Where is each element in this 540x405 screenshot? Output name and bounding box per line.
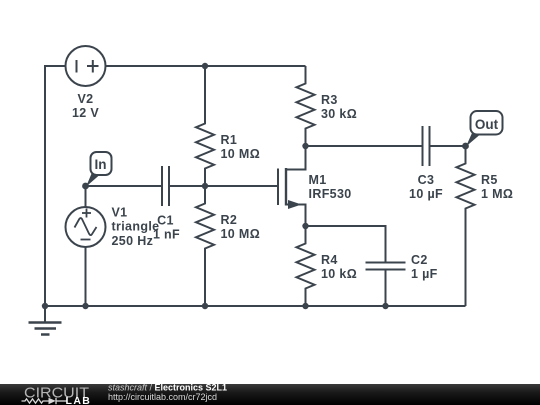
svg-text:1 nF: 1 nF: [153, 227, 180, 241]
label C2 value: [411, 253, 438, 281]
wire source node to C2: [306, 226, 386, 262]
footer bar: [0, 384, 540, 405]
svg-text:10 MΩ: 10 MΩ: [221, 147, 261, 161]
node gate junction: [202, 183, 208, 189]
label R4 value: [321, 253, 357, 281]
label R3 value: [321, 93, 357, 121]
svg-text:IRF530: IRF530: [309, 187, 352, 201]
voltage source V2: [66, 46, 106, 86]
resistor R5: [457, 146, 475, 226]
label C3 value: [409, 173, 443, 201]
node V1 bottom: [82, 303, 88, 309]
label R5 value: [481, 173, 513, 201]
wire C3 to out node: [431, 145, 466, 147]
voltage source V1 triangle: [66, 207, 106, 247]
resistor R2: [196, 186, 214, 306]
wire C2 bottom lead: [385, 271, 387, 307]
nmos M1: [278, 146, 306, 226]
svg-text:R3: R3: [321, 93, 338, 107]
svg-text:M1: M1: [309, 173, 327, 187]
svg-text:V1: V1: [112, 206, 128, 220]
wire bottom rail: [45, 305, 466, 307]
svg-text:250 Hz: 250 Hz: [112, 234, 154, 248]
wire top rail: [106, 65, 306, 67]
wire R5 bottom lead: [465, 226, 467, 306]
node dot top rail R1: [202, 63, 208, 69]
svg-text:C3: C3: [418, 173, 435, 187]
capacitor C1: [162, 166, 169, 206]
node drain: [302, 143, 308, 149]
label M1 value: [309, 173, 352, 201]
node In: [82, 183, 89, 190]
wire gate rail right: [170, 185, 278, 187]
node R4 bottom: [302, 303, 308, 309]
svg-text:V2: V2: [78, 92, 94, 106]
resistor R4: [297, 226, 315, 306]
svg-text:R5: R5: [481, 173, 498, 187]
wire left rail: [45, 66, 66, 306]
label Out text: [475, 117, 499, 132]
svg-text:http://circuitlab.com/cr72jcd: http://circuitlab.com/cr72jcd: [108, 392, 217, 402]
resistor R1: [196, 66, 214, 186]
label R2 value: [221, 213, 261, 241]
svg-text:LAB: LAB: [66, 395, 92, 405]
svg-text:C1: C1: [157, 214, 174, 228]
wire V1 top lead: [85, 186, 87, 207]
node source: [302, 223, 308, 229]
node C2 bottom: [382, 303, 388, 309]
label In text: [95, 157, 107, 172]
svg-text:10 MΩ: 10 MΩ: [221, 227, 261, 241]
node ground junction: [42, 303, 48, 309]
svg-text:R2: R2: [221, 213, 238, 227]
label V1 value: [112, 206, 160, 248]
wire drain node to C3: [306, 145, 422, 147]
svg-text:R1: R1: [221, 133, 238, 147]
node Out: [462, 143, 469, 150]
flag Out: [466, 111, 503, 147]
capacitor C3: [423, 126, 430, 166]
svg-text:C2: C2: [411, 253, 428, 267]
label V2 value: [72, 92, 99, 120]
svg-text:1 MΩ: 1 MΩ: [481, 187, 513, 201]
footer logo LAB: [66, 395, 92, 405]
svg-text:Out: Out: [475, 117, 499, 132]
svg-text:In: In: [95, 157, 107, 172]
wire V1 bottom lead: [85, 247, 87, 306]
svg-text:R4: R4: [321, 253, 338, 267]
footer title line: [108, 383, 227, 393]
wire gate rail left: [86, 185, 162, 187]
svg-text:30 kΩ: 30 kΩ: [321, 107, 357, 121]
footer logo CIRCUIT: [24, 385, 89, 402]
node R2 bottom: [202, 303, 208, 309]
flag In: [86, 152, 112, 187]
label R1 value: [221, 133, 261, 161]
footer logo resistor-diode symbol: [22, 398, 68, 404]
svg-text:10 kΩ: 10 kΩ: [321, 267, 357, 281]
footer url line: [108, 392, 217, 402]
label C1 value: [153, 214, 180, 242]
capacitor C2: [366, 263, 406, 270]
svg-text:1 µF: 1 µF: [411, 267, 438, 281]
svg-text:12 V: 12 V: [72, 106, 99, 120]
svg-text:10 µF: 10 µF: [409, 187, 443, 201]
ground: [29, 306, 62, 335]
resistor R3: [297, 66, 315, 146]
